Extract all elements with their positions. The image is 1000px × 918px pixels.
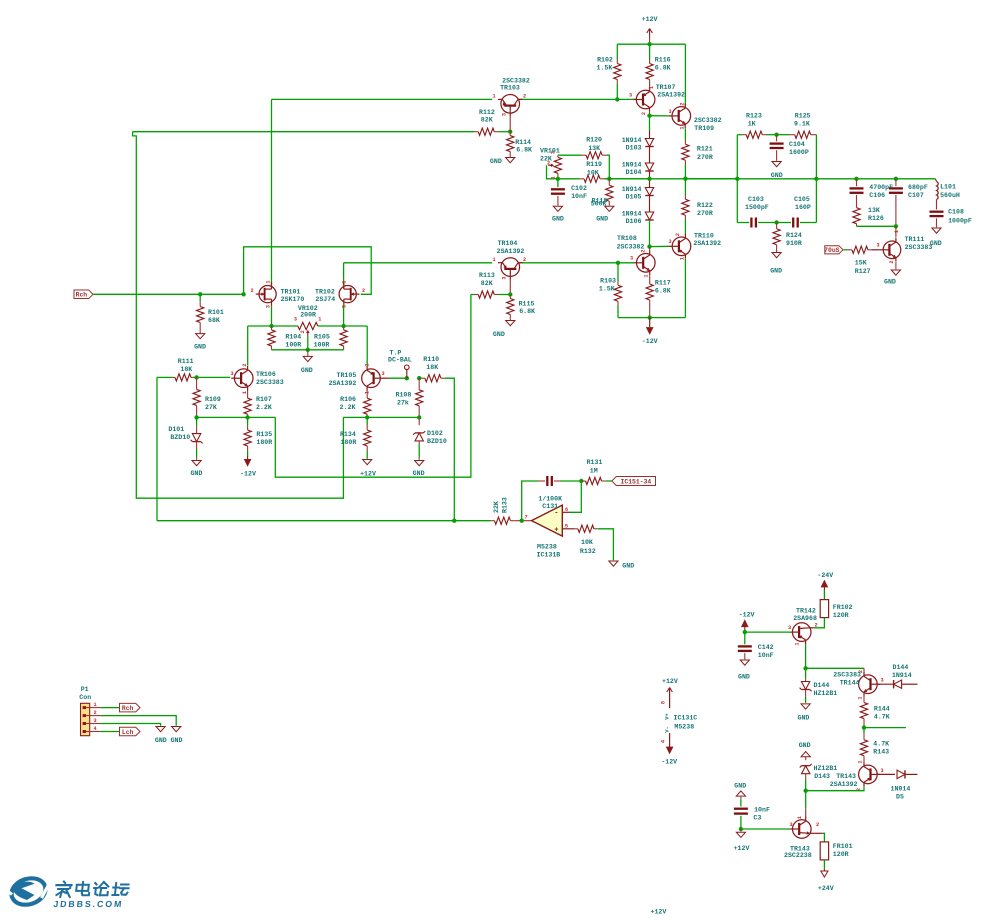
svg-text:2SC3382: 2SC3382 [617,243,645,250]
svg-text:IC151-34: IC151-34 [621,478,652,485]
svg-text:2: 2 [523,94,526,100]
svg-text:4: 4 [93,726,96,732]
svg-text:1N914: 1N914 [622,211,642,218]
svg-text:IC131B: IC131B [537,551,561,558]
svg-text:2: 2 [93,710,96,716]
svg-text:2SC3382: 2SC3382 [694,117,722,124]
svg-text:+24V: +24V [818,885,834,892]
svg-text:D144: D144 [814,682,830,689]
svg-text:GND: GND [552,216,564,223]
svg-text:6.8K: 6.8K [655,288,671,295]
svg-text:680pF: 680pF [908,184,928,191]
svg-text:R123: R123 [746,113,762,120]
svg-text:6.8K: 6.8K [516,146,532,153]
svg-text:2SA1392: 2SA1392 [693,240,721,247]
svg-text:200R: 200R [300,311,316,318]
svg-text:70uS: 70uS [824,247,840,254]
svg-text:GND: GND [171,737,183,744]
svg-text:HZ12B1: HZ12B1 [814,690,838,697]
svg-text:Con: Con [79,694,91,701]
svg-text:2SA1392: 2SA1392 [657,91,685,98]
svg-text:TR142: TR142 [796,607,816,614]
svg-text:10nF: 10nF [758,652,774,659]
svg-text:2SC3383: 2SC3383 [833,672,861,679]
svg-text:15K: 15K [855,259,867,266]
svg-text:1K: 1K [748,121,756,128]
svg-text:1: 1 [680,257,686,260]
svg-text:V-: V- [665,726,671,732]
svg-text:1: 1 [858,760,864,763]
svg-text:Rch: Rch [76,292,88,299]
svg-text:+12V: +12V [734,845,750,852]
svg-text:2: 2 [816,822,819,828]
svg-text:4.7K: 4.7K [874,714,890,721]
svg-text:R125: R125 [795,113,811,120]
svg-text:68K: 68K [208,317,220,324]
svg-text:100R: 100R [314,341,330,348]
svg-text:3: 3 [502,276,508,279]
svg-text:M5238: M5238 [674,723,694,730]
svg-text:2: 2 [889,260,895,263]
svg-text:D143: D143 [814,773,830,780]
svg-text:3: 3 [93,718,96,724]
svg-text:1.5K: 1.5K [599,286,615,293]
svg-text:4: 4 [661,740,667,743]
svg-text:TR103: TR103 [500,85,520,92]
svg-text:3: 3 [294,317,297,323]
svg-text:TR110: TR110 [694,232,714,239]
svg-text:10nF: 10nF [571,193,587,200]
svg-text:3: 3 [342,305,348,308]
svg-text:2.2K: 2.2K [256,404,272,411]
svg-text:C131: C131 [542,503,558,510]
svg-text:2: 2 [250,288,253,294]
svg-text:2SA1392: 2SA1392 [329,380,357,387]
svg-text:1: 1 [795,642,801,645]
svg-text:C142: C142 [758,644,774,651]
svg-text:R115: R115 [519,301,535,308]
svg-text:500K: 500K [591,201,607,208]
svg-text:1: 1 [644,274,650,277]
svg-text:GND: GND [799,742,811,749]
svg-text:DC-BAL: DC-BAL [388,357,412,364]
svg-text:TR101: TR101 [281,288,301,295]
svg-text:2: 2 [641,112,647,115]
svg-text:P1: P1 [81,686,89,693]
svg-text:18K: 18K [426,364,438,371]
svg-text:1N914: 1N914 [892,672,912,679]
svg-text:3: 3 [876,243,879,249]
svg-text:R124: R124 [786,232,802,239]
svg-text:R122: R122 [697,202,713,209]
svg-text:+12V: +12V [642,16,658,23]
svg-text:FR101: FR101 [833,843,853,850]
svg-text:R101: R101 [208,309,224,316]
svg-text:3: 3 [789,822,792,828]
svg-text:D144: D144 [893,664,909,671]
svg-text:TR111: TR111 [905,236,925,243]
svg-text:Rch: Rch [122,705,134,712]
svg-text:V+: V+ [665,713,671,719]
svg-text:R112: R112 [479,109,495,116]
svg-text:C104: C104 [789,141,805,148]
svg-text:-12V: -12V [642,338,658,345]
svg-text:180R: 180R [340,439,356,446]
svg-text:D103: D103 [626,145,642,152]
svg-text:GND: GND [490,158,502,165]
svg-text:R119: R119 [586,161,602,168]
svg-text:4.7K: 4.7K [873,740,889,747]
svg-text:3: 3 [502,113,508,116]
svg-text:2: 2 [242,363,248,366]
svg-text:3: 3 [551,151,557,154]
svg-text:3: 3 [788,625,791,631]
svg-text:120R: 120R [833,851,849,858]
svg-text:R133: R133 [501,497,508,513]
svg-text:+12V: +12V [651,908,667,915]
svg-text:1N914: 1N914 [891,786,911,793]
svg-text:D104: D104 [626,169,642,176]
svg-text:GND: GND [622,563,634,570]
svg-text:GND: GND [930,240,942,247]
svg-text:10K: 10K [587,169,599,176]
svg-text:2: 2 [365,363,371,366]
svg-text:D105: D105 [626,194,642,201]
svg-text:R105: R105 [314,333,330,340]
svg-text:GND: GND [194,344,206,351]
svg-text:3: 3 [880,678,883,684]
svg-text:2: 2 [547,161,550,167]
svg-text:22K: 22K [493,501,500,513]
svg-text:1: 1 [894,230,900,233]
svg-text:GND: GND [155,737,167,744]
svg-text:3: 3 [266,305,272,308]
svg-text:TR107: TR107 [656,84,676,91]
svg-text:R114: R114 [515,139,531,146]
svg-text:1: 1 [680,126,686,129]
svg-text:TR109: TR109 [694,125,714,132]
svg-text:1.5K: 1.5K [596,64,612,71]
svg-text:100R: 100R [285,341,301,348]
svg-text:2SK170: 2SK170 [281,296,305,303]
svg-text:9.1K: 9.1K [794,121,810,128]
svg-text:2: 2 [641,249,647,252]
svg-text:R121: R121 [697,146,713,153]
svg-text:R143: R143 [873,749,889,756]
svg-text:C102: C102 [571,185,587,192]
svg-text:R127: R127 [855,268,871,275]
svg-text:2: 2 [858,670,864,673]
svg-text:1: 1 [492,257,495,263]
svg-text:C107: C107 [908,192,924,199]
svg-text:8: 8 [661,701,667,704]
svg-text:TR102: TR102 [315,288,335,295]
svg-text:2: 2 [362,288,365,294]
svg-text:D106: D106 [626,218,642,225]
svg-text:3: 3 [668,109,671,115]
svg-text:TR104: TR104 [498,240,518,247]
svg-text:C3: C3 [753,815,761,822]
svg-text:C103: C103 [748,196,764,203]
svg-text:JDBBS.COM: JDBBS.COM [53,899,124,909]
svg-text:1: 1 [858,696,864,699]
svg-text:18K: 18K [180,366,192,373]
svg-text:R117: R117 [655,279,671,286]
svg-text:2SA1392: 2SA1392 [830,781,858,788]
svg-text:10K: 10K [581,539,593,546]
svg-text:GND: GND [596,216,608,223]
svg-text:Lch: Lch [122,729,134,736]
svg-text:27K: 27K [205,404,217,411]
svg-text:1N914: 1N914 [622,162,642,169]
svg-text:TR106: TR106 [256,371,276,378]
svg-text:2: 2 [680,102,686,105]
svg-text:C108: C108 [948,209,964,216]
svg-text:R144: R144 [874,705,890,712]
svg-text:TR105: TR105 [337,372,357,379]
svg-text:R109: R109 [205,396,221,403]
svg-text:1: 1 [551,176,557,179]
svg-text:C106: C106 [869,192,885,199]
svg-text:T.P: T.P [390,349,402,356]
svg-text:R134: R134 [340,431,356,438]
svg-text:1: 1 [318,317,321,323]
svg-text:GND: GND [413,470,425,477]
svg-text:GND: GND [301,367,313,374]
svg-text:6.8K: 6.8K [655,64,671,71]
svg-text:HZ12B1: HZ12B1 [814,765,838,772]
svg-text:R126: R126 [868,215,884,222]
svg-text:2: 2 [675,233,681,236]
svg-text:1: 1 [266,280,272,283]
svg-text:M5238: M5238 [537,543,557,550]
svg-text:910R: 910R [786,240,802,247]
svg-text:C105: C105 [794,196,810,203]
svg-text:-24V: -24V [817,572,833,579]
svg-text:2SA968: 2SA968 [793,615,817,622]
svg-text:TR143: TR143 [836,773,856,780]
svg-text:GND: GND [493,331,505,338]
svg-text:560uH: 560uH [940,192,960,199]
svg-text:-12V: -12V [240,471,256,478]
svg-text:FR102: FR102 [833,604,853,611]
svg-text:GND: GND [798,714,810,721]
svg-text:+12V: +12V [360,471,376,478]
svg-text:-12V: -12V [739,612,755,619]
svg-text:2SC3383: 2SC3383 [905,244,933,251]
svg-text:R102: R102 [597,57,613,64]
svg-text:3: 3 [629,93,632,99]
svg-text:GND: GND [734,782,746,789]
svg-text:1: 1 [342,280,348,283]
svg-text:R111: R111 [178,358,194,365]
svg-text:R113: R113 [479,272,495,279]
svg-text:GND: GND [771,172,783,179]
svg-text:1500pF: 1500pF [745,204,769,211]
svg-text:1: 1 [492,94,495,100]
svg-text:L101: L101 [940,183,956,190]
svg-text:1N914: 1N914 [622,137,642,144]
svg-text:2.2K: 2.2K [340,404,356,411]
svg-text:13K: 13K [588,145,600,152]
svg-text:R104: R104 [285,333,301,340]
svg-text:82K: 82K [481,116,493,123]
svg-text:10nF: 10nF [754,807,770,814]
svg-text:1M: 1M [590,468,598,475]
svg-text:3: 3 [880,768,883,774]
svg-text:3: 3 [630,256,633,262]
svg-text:R135: R135 [256,431,272,438]
svg-text:D102: D102 [427,430,443,437]
svg-text:1: 1 [93,702,96,708]
svg-text:1000pF: 1000pF [948,217,972,224]
svg-text:1/100K: 1/100K [538,495,562,502]
svg-text:2SA1392: 2SA1392 [497,248,525,255]
svg-text:-: - [554,509,558,517]
svg-text:3: 3 [230,371,233,377]
svg-text:2SC3383: 2SC3383 [256,379,284,386]
svg-text:270R: 270R [697,154,713,161]
svg-text:R103: R103 [600,277,616,284]
svg-text:2SC3382: 2SC3382 [502,77,530,84]
svg-text:GND: GND [884,278,896,285]
svg-text:180R: 180R [256,439,272,446]
svg-text:BZD10: BZD10 [427,438,447,445]
svg-text:R110: R110 [423,356,439,363]
svg-text:TR144: TR144 [840,680,860,687]
svg-text:R132: R132 [580,548,596,555]
svg-text:IC131C: IC131C [674,715,698,722]
svg-text:R107: R107 [256,396,272,403]
svg-text:27k: 27k [397,400,409,407]
svg-text:120R: 120R [833,612,849,619]
svg-text:GND: GND [738,674,750,681]
svg-text:3: 3 [668,239,671,245]
svg-text:+12V: +12V [662,678,678,685]
svg-text:3: 3 [381,371,384,377]
svg-text:13K: 13K [868,207,880,214]
svg-text:2SC2238: 2SC2238 [784,852,812,859]
svg-text:7: 7 [524,514,527,520]
svg-text:R120: R120 [586,137,602,144]
svg-text:1N914: 1N914 [622,186,642,193]
svg-text:TR108: TR108 [617,235,637,242]
svg-text:R116: R116 [655,57,671,64]
svg-text:160P: 160P [795,204,811,211]
svg-text:2: 2 [523,257,526,263]
svg-text:R106: R106 [340,396,356,403]
svg-text:2SJ74: 2SJ74 [315,296,335,303]
svg-text:2: 2 [814,622,817,628]
svg-text:BZD10: BZD10 [170,434,190,441]
svg-text:-12V: -12V [661,759,677,766]
svg-text:D101: D101 [168,426,184,433]
svg-text:1600P: 1600P [789,149,809,156]
svg-text:1: 1 [797,816,803,819]
svg-text:D5: D5 [896,794,904,801]
svg-text:R131: R131 [587,459,603,466]
svg-text:270R: 270R [697,210,713,217]
svg-text:+: + [554,526,558,534]
svg-text:6.8K: 6.8K [519,308,535,315]
svg-text:GND: GND [190,470,202,477]
svg-text:R108: R108 [396,392,412,399]
svg-text:82K: 82K [481,280,493,287]
svg-text:GND: GND [770,268,782,275]
